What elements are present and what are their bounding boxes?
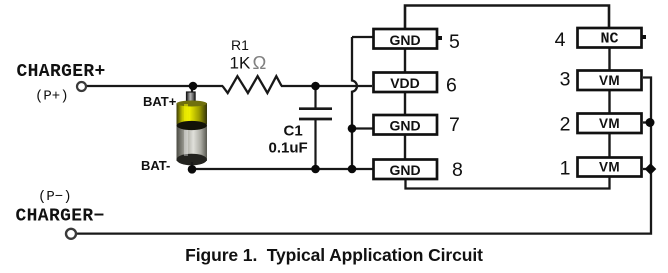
junction VM1 diamond node: [645, 163, 657, 175]
wire top loop from pin5 column to pin4 column: [405, 6, 609, 29]
svg-text:CHARGER+: CHARGER+: [17, 62, 106, 82]
svg-text:Ω: Ω: [253, 52, 267, 73]
svg-text:2: 2: [560, 114, 571, 136]
wire right bus VM3/VM2/VM1 to bottom rail: [76, 78, 651, 234]
svg-text:BAT+: BAT+: [143, 94, 177, 109]
svg-text:Figure 1. Typical Application: Figure 1. Typical Application Circuit: [185, 245, 483, 265]
wire inter-box verticals right column: [608, 48, 610, 70]
terminal CHARGER-: [66, 229, 76, 239]
pin box VM 2: [578, 114, 642, 134]
svg-text:R1: R1: [231, 37, 249, 53]
svg-text:3: 3: [560, 69, 571, 91]
svg-text:0.1uF: 0.1uF: [269, 140, 308, 157]
svg-text:(P+): (P+): [35, 89, 69, 105]
capacitor C1: [314, 86, 316, 108]
junction capacitor bottom node: [311, 165, 320, 174]
wire GND bus to GND pin5: [352, 36, 373, 38]
battery cell: [177, 86, 208, 169]
svg-text:4: 4: [555, 29, 566, 51]
svg-text:VM: VM: [599, 160, 620, 175]
junction VM2 node: [646, 118, 655, 127]
wire VM1 stub: [643, 168, 651, 170]
pin box GND 8: [374, 160, 438, 180]
svg-text:VDD: VDD: [390, 75, 420, 91]
svg-text:1K: 1K: [230, 54, 251, 73]
junction battery bottom node: [188, 165, 197, 174]
svg-text:5: 5: [449, 31, 460, 53]
svg-text:8: 8: [452, 159, 463, 181]
wire GND8 bottom loop to VM1: [406, 177, 610, 189]
pin box GND 7: [374, 115, 438, 135]
svg-text:NC: NC: [600, 31, 618, 48]
pin box GND 5: [374, 29, 443, 49]
svg-text:6: 6: [446, 75, 457, 97]
pin box VM 1: [578, 158, 642, 177]
svg-text:1: 1: [560, 158, 571, 180]
wire bottom rail BAT- to GND pin8: [192, 168, 373, 170]
resistor R1: [223, 76, 282, 93]
pin box VM 3: [578, 71, 642, 91]
wire VM2 stub: [643, 121, 651, 123]
junction battery top node: [189, 82, 198, 91]
svg-text:BAT-: BAT-: [141, 158, 170, 173]
junction capacitor top node: [311, 82, 320, 91]
svg-text:7: 7: [449, 114, 460, 136]
svg-text:GND: GND: [389, 32, 420, 48]
wire GND bus vertical with hop over main rail: [352, 37, 357, 169]
terminal CHARGER+: [77, 82, 86, 91]
wire GND bus to GND pin7: [352, 127, 373, 129]
pin box VDD 6: [374, 73, 438, 93]
svg-text:(P−): (P−): [38, 189, 72, 205]
pin box NC 4: [578, 28, 647, 48]
svg-text:C1: C1: [284, 123, 303, 140]
svg-text:CHARGER−: CHARGER−: [16, 207, 105, 227]
junction GND bus bottom rail node: [348, 165, 357, 174]
wire main rail CHARGER+ to VDD: [85, 85, 223, 87]
junction GND bus pin7 node: [348, 124, 357, 133]
svg-text:GND: GND: [389, 162, 420, 178]
svg-text:VM: VM: [599, 73, 620, 88]
wire inter-box verticals left column: [404, 49, 406, 72]
svg-text:GND: GND: [389, 118, 420, 134]
svg-text:VM: VM: [599, 116, 620, 131]
wire resistor to capacitor node: [281, 85, 372, 87]
